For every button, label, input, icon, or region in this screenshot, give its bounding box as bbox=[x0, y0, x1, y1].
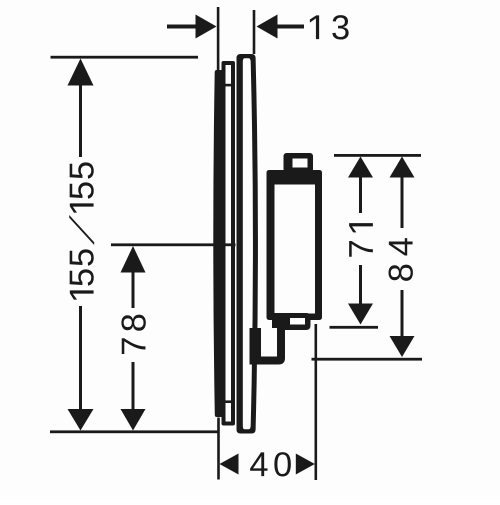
dimension 13 : right arrow line bbox=[257, 15, 305, 39]
dimension 78 : dimension line with arrows bbox=[121, 246, 146, 431]
dimension 155/155 : label bbox=[69, 162, 94, 299]
dimension 40 : right arrow bbox=[296, 454, 315, 475]
valve cartridge cap bbox=[284, 153, 314, 172]
dimension 40 : left extension line bbox=[217, 418, 220, 480]
dimension 155/155 : top extension line bbox=[51, 56, 199, 59]
wall plate back layer bbox=[213, 70, 222, 417]
dimension 71 : label bbox=[349, 223, 373, 257]
dimension 40 : right extension line bbox=[315, 324, 318, 480]
dimension 71 and 84 : shared top extension line bbox=[334, 154, 421, 157]
dimension 71 : dimension line with arrows bbox=[348, 157, 373, 325]
wall plate front panel bbox=[237, 54, 258, 434]
dimension 78 : label bbox=[121, 315, 145, 354]
dimension 40 : label bbox=[250, 452, 291, 476]
wall plate middle layer bbox=[222, 61, 236, 426]
dimension 84 : dimension line with arrows bbox=[390, 157, 415, 358]
dimension 155/155 : dimension line with arrows bbox=[68, 59, 94, 431]
valve lower step bbox=[272, 313, 311, 330]
dimension 13 : label bbox=[310, 15, 349, 39]
dimension 71 : bottom extension line bbox=[330, 326, 379, 329]
dimension 13 : extension line B bbox=[253, 10, 256, 54]
dimension 84 : label bbox=[388, 238, 412, 281]
dimension 13 : extension line A bbox=[217, 7, 220, 70]
dimension 78 : top extension line bbox=[111, 243, 236, 246]
valve bottom connector bbox=[250, 328, 286, 365]
dimension 13 : left arrow line bbox=[167, 15, 217, 39]
dimension 40 : left arrow bbox=[220, 454, 239, 475]
dimension 84 : bottom extension line bbox=[312, 358, 423, 361]
valve main body bbox=[267, 170, 323, 320]
dimension 155/155 : bottom extension line bbox=[50, 430, 219, 433]
